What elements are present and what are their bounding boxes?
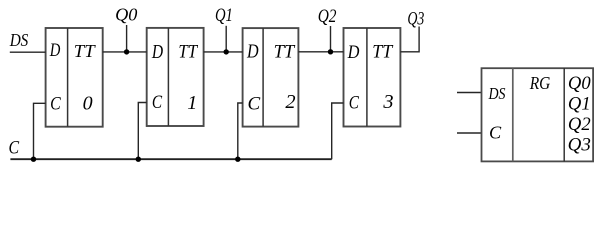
svg-text:Q1: Q1	[215, 5, 233, 26]
svg-text:3: 3	[382, 91, 393, 113]
svg-text:C: C	[152, 92, 163, 113]
svg-text:C: C	[349, 92, 359, 113]
svg-text:RG: RG	[529, 73, 550, 93]
svg-text:C: C	[50, 94, 61, 115]
svg-text:2: 2	[285, 91, 295, 113]
svg-text:D: D	[347, 42, 360, 63]
svg-text:DS: DS	[488, 84, 506, 103]
svg-text:C: C	[9, 138, 20, 159]
svg-text:C: C	[489, 122, 502, 142]
svg-text:D: D	[246, 42, 258, 63]
svg-text:TT: TT	[372, 42, 393, 63]
svg-text:1: 1	[187, 92, 197, 114]
svg-text:D: D	[151, 42, 163, 63]
svg-text:Q0: Q0	[568, 73, 591, 94]
svg-text:TT: TT	[178, 42, 198, 63]
svg-text:TT: TT	[74, 41, 97, 61]
svg-text:Q3: Q3	[568, 134, 591, 155]
svg-text:Q3: Q3	[407, 8, 424, 29]
svg-text:C: C	[248, 94, 261, 115]
svg-text:D: D	[49, 40, 61, 61]
svg-text:Q1: Q1	[568, 93, 591, 114]
svg-text:Q0: Q0	[115, 5, 137, 25]
svg-text:Q2: Q2	[568, 114, 591, 135]
svg-text:0: 0	[83, 92, 93, 114]
svg-text:DS: DS	[9, 30, 29, 50]
svg-text:TT: TT	[274, 42, 296, 63]
svg-text:Q2: Q2	[318, 6, 337, 27]
